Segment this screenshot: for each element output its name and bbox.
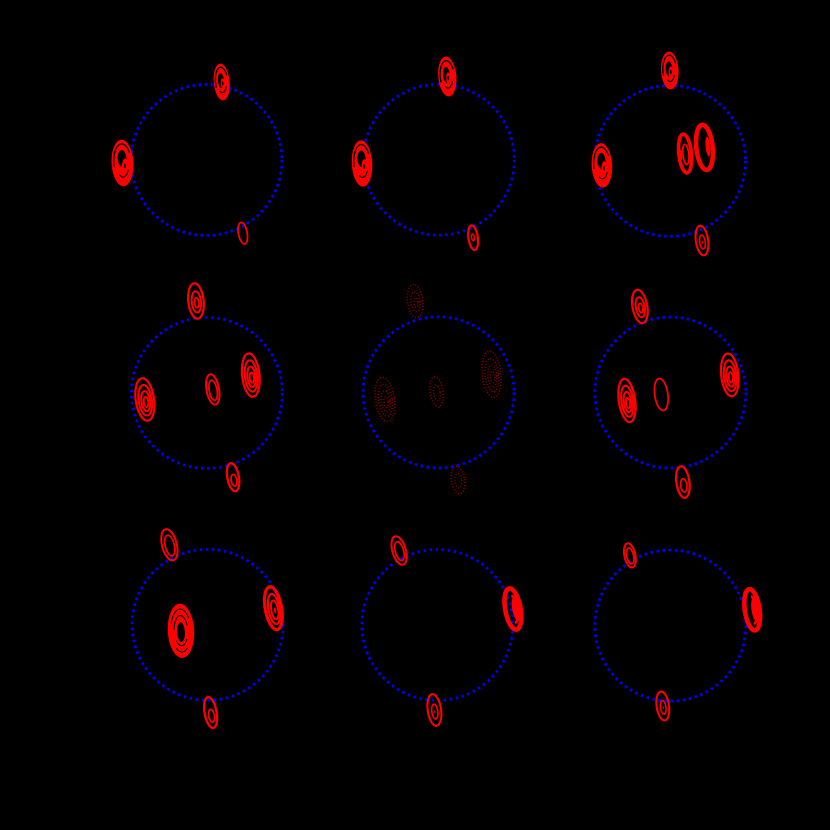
vortex blob P13 top — [660, 51, 680, 90]
vortex blob P21 left — [133, 377, 157, 422]
vortex blob P12 bottom — [467, 225, 480, 251]
vortex blob P23 right — [719, 353, 741, 398]
vortex blob P23 left — [616, 378, 638, 423]
vortex blob P21 top — [186, 282, 205, 319]
vortex blob P33 right — [742, 588, 762, 631]
ring circle panel 3 — [595, 85, 746, 236]
ring circle panel 1 — [131, 85, 282, 236]
vortex blob P32 right — [502, 587, 524, 631]
vortex blob P23 center — [653, 378, 671, 412]
vortex blob P12 left — [350, 140, 373, 187]
vortex blob P22 right — [480, 350, 504, 398]
vortex blob P33 bottom — [655, 691, 671, 722]
vortex blob P13 left — [590, 143, 613, 189]
vortex blob P31 bottom — [202, 696, 219, 729]
vortex blob P22 top — [406, 284, 425, 319]
vortex blob P31 big — [166, 603, 195, 659]
vortex blob P23 top — [630, 289, 650, 325]
ring circle panel 7 — [132, 549, 283, 700]
vortex blob P13 inner-right — [694, 124, 715, 171]
vortex blob P32 bottom — [426, 693, 444, 727]
ring circle panel 6 — [595, 317, 746, 468]
ring circle panel 8 — [362, 550, 513, 701]
vortex blob P11 left — [110, 139, 134, 187]
ring circle panel 5 — [363, 317, 514, 468]
vortex blob P21 center — [204, 373, 222, 406]
vortex blob P23 bottom — [674, 465, 691, 498]
ring circle panel 9 — [595, 550, 746, 701]
vortex blob P22 left — [372, 376, 397, 422]
vortex blob P31 top — [158, 527, 180, 562]
vortex blob P13 inner-left — [677, 134, 694, 174]
vortex blob P21 right — [240, 353, 262, 398]
vortex blob P11 bottom — [237, 222, 249, 245]
vortex blob P22 center — [428, 376, 445, 408]
vortex blob P22 bottom — [450, 465, 467, 494]
vortex blob P11 top — [212, 63, 231, 101]
vortex blob P12 top — [436, 56, 458, 97]
ring circle panel 2 — [363, 84, 514, 235]
vortex blob P31 right — [262, 585, 286, 631]
vortex blob P32 top — [389, 535, 410, 567]
vortex blob P21 bottom — [225, 462, 241, 492]
ring circle panel 4 — [131, 318, 282, 469]
vortex blob P33 top — [622, 542, 638, 568]
vortex blob P13 bottom — [694, 225, 710, 256]
